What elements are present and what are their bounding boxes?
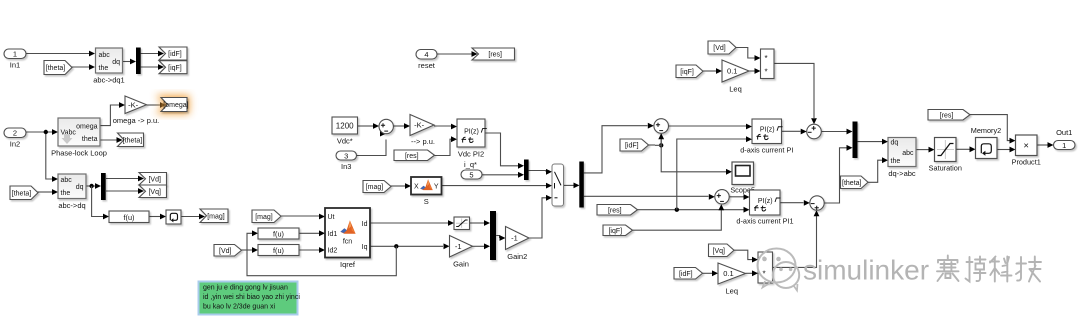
wire demux to [iqF] <box>141 66 158 68</box>
matlab logo S <box>420 179 432 190</box>
gain Leq <box>722 60 749 82</box>
svg-text:[res]: [res] <box>405 153 419 160</box>
wire switch to demux <box>563 184 573 186</box>
wire [Vq] to product2 <box>734 250 752 259</box>
svg-text:abc: abc <box>99 52 111 59</box>
wire f(u) to Memory <box>149 216 160 218</box>
wire f(u)3 to Id2 <box>299 249 319 251</box>
wire idF to sum d <box>660 134 662 146</box>
wire In2 to PLL <box>26 131 52 133</box>
pid block Vdc PI2 <box>457 119 485 147</box>
product block (Vd*wLiq) <box>761 49 775 79</box>
svg-text:dq->abc: dq->abc <box>888 169 916 178</box>
outport Out1 <box>1054 141 1076 150</box>
svg-text:[mag]: [mag] <box>366 184 384 191</box>
subsystem dq-&gt;abc <box>888 138 916 167</box>
wire [theta] to abc->dq1 the <box>72 66 90 68</box>
wire Id to saturation dyn <box>370 222 448 224</box>
wire demux to [idF] <box>141 53 158 55</box>
wire PI out to sum3 <box>782 130 801 132</box>
svg-text:d-axis current PI1: d-axis current PI1 <box>736 217 793 226</box>
matlab function Iqref <box>325 208 370 258</box>
goto [Vd] <box>139 173 167 186</box>
wire abc->dq dq out to demux <box>86 185 95 187</box>
wire [theta] to dq->abc the <box>868 160 882 182</box>
wire In2 branch down to abc->dq abc <box>46 132 53 179</box>
product block Product1 <box>1016 135 1038 156</box>
wire res up to PI reset <box>677 139 746 210</box>
goto [omega] highlighted <box>161 98 187 112</box>
wire Saturation to Memory2 <box>956 148 970 150</box>
svg-text:1200: 1200 <box>336 122 354 131</box>
svg-text:abc->dq1: abc->dq1 <box>93 76 124 85</box>
svg-text:4: 4 <box>424 50 428 59</box>
svg-text:Gain: Gain <box>453 260 469 269</box>
from [res] (PI reset) <box>597 205 638 216</box>
svg-text:[mag]: [mag] <box>255 214 273 221</box>
svg-text:[Vq]: [Vq] <box>148 189 161 196</box>
svg-text:Iqref: Iqref <box>340 260 356 269</box>
svg-text:dq: dq <box>112 59 120 66</box>
gain to p.u. <box>410 115 434 136</box>
wire PI1 out to sum4 <box>780 202 804 204</box>
wire Leq to product <box>749 70 755 72</box>
wire mux to Gain2 <box>496 236 499 239</box>
inport i_q* value 5 <box>461 170 482 179</box>
wire Iq to Gain <box>370 245 443 247</box>
svg-text:0.1: 0.1 <box>727 67 737 76</box>
svg-text:d-axis current PI: d-axis current PI <box>740 146 793 155</box>
wire [idF] to junction <box>649 144 656 146</box>
inport reset <box>416 50 437 60</box>
wire idF down to Scope5 <box>661 145 726 172</box>
from [theta] (lower) <box>10 186 38 200</box>
svg-text:simulinker: simulinker <box>803 255 929 286</box>
wire [res] to Product1 <box>970 115 1010 141</box>
junction res <box>675 208 679 212</box>
svg-text:PI(z): PI(z) <box>760 127 775 134</box>
svg-text:reset: reset <box>418 61 436 70</box>
wire dq->abc to Saturation <box>916 149 929 151</box>
sum d-axis <box>654 119 669 134</box>
svg-text:[theta]: [theta] <box>46 65 66 72</box>
svg-text:[theta]: [theta] <box>842 180 862 187</box>
svg-text:1: 1 <box>13 50 17 59</box>
svg-text:1: 1 <box>1062 141 1066 150</box>
wire demux to [Vd] <box>106 178 139 180</box>
wire sum d to PI <box>669 125 746 127</box>
wire mux4 to dq->abc <box>858 141 882 143</box>
svg-text:*: * <box>764 68 767 77</box>
svg-text:×: × <box>1023 141 1029 152</box>
svg-text:Leq: Leq <box>729 85 742 94</box>
wire Product1 to Out1 <box>1037 144 1048 146</box>
from [idF] (d-axis) <box>620 139 649 151</box>
wire sat to mux <box>470 222 485 224</box>
wire [idF] to Leq2 <box>703 272 713 274</box>
pid block d-axis current PI1 <box>750 190 781 215</box>
watermark wechat logo <box>758 249 800 291</box>
svg-text:*: * <box>764 54 767 63</box>
svg-text:Y: Y <box>434 184 439 191</box>
svg-text:[omega]: [omega] <box>163 102 188 109</box>
from [Vd] (Leq) <box>708 41 736 54</box>
svg-text:Id1: Id1 <box>328 231 338 238</box>
from [theta] (top) <box>44 61 72 75</box>
wire [mag] to S block <box>391 185 406 187</box>
saturation dynamic block <box>454 217 470 230</box>
wire demux to [Vq] <box>106 190 139 192</box>
goto [Vq] <box>139 185 167 198</box>
junction dq out <box>89 184 93 188</box>
inport In2 <box>4 128 26 138</box>
wire mux to switch in1 <box>529 171 546 172</box>
wire PLL omega to gain <box>100 105 119 126</box>
svg-text:[idF]: [idF] <box>679 271 693 278</box>
goto [res] <box>472 48 515 60</box>
goto [theta] <box>118 133 144 147</box>
wire Iq feedback to f(u)2 <box>247 233 396 275</box>
goto [mag] <box>200 209 228 223</box>
PLL arrow icon <box>62 134 73 144</box>
matlab logo Iqref <box>340 220 355 233</box>
wire reset to [res] goto <box>437 53 472 55</box>
svg-text:abc->dq: abc->dq <box>58 201 85 210</box>
svg-text:3: 3 <box>344 151 348 160</box>
wire S out to switch in2 <box>442 185 547 187</box>
svg-text:PI(z): PI(z) <box>464 129 479 136</box>
svg-text:[theta]: [theta] <box>123 137 143 144</box>
svg-text:id ,yin wei shi biao yao zhi y: id ,yin wei shi biao yao zhi yinci <box>203 294 300 301</box>
wire [Vd] to f(u)3 <box>242 249 253 251</box>
svg-text:[theta]: [theta] <box>12 190 32 197</box>
svg-text:[iqF]: [iqF] <box>168 65 182 72</box>
svg-text:2: 2 <box>13 129 17 138</box>
mux id/iq cmd <box>490 211 496 260</box>
demux for Vd/Vq <box>101 173 106 200</box>
svg-text:Ut: Ut <box>328 214 335 221</box>
svg-text:f(u): f(u) <box>124 213 135 222</box>
subsystem Phase-lock Loop <box>58 118 100 146</box>
svg-text:bu kao lv 2/3de guan xi: bu kao lv 2/3de guan xi <box>203 303 275 310</box>
matlab function S <box>411 177 442 195</box>
subsystem abc-&gt;dq <box>58 174 86 199</box>
svg-text:Saturation: Saturation <box>929 164 962 173</box>
watermark text saibokeji (drawn CJK strokes) <box>937 256 1041 282</box>
wire product down to sum3 <box>774 63 814 118</box>
demux for idF/iqF <box>136 48 141 75</box>
fcn block f(u) upper <box>258 228 299 239</box>
svg-text:[Vd]: [Vd] <box>148 176 161 183</box>
wire f(u)2 to Id1 <box>299 232 319 234</box>
wire [res] to PI1 reset <box>638 209 744 211</box>
svg-text:[iqF]: [iqF] <box>680 69 694 76</box>
wire In3 up to sum <box>356 140 386 156</box>
wire PLL theta to [theta] goto <box>100 139 117 141</box>
memory block <box>166 210 181 224</box>
svg-text:X: X <box>414 184 419 191</box>
inport In1 <box>4 49 26 59</box>
svg-text:Leq: Leq <box>725 287 738 296</box>
svg-text:-K-: -K- <box>128 100 139 109</box>
svg-text:[res]: [res] <box>488 52 502 59</box>
svg-text:[Vd]: [Vd] <box>219 248 232 255</box>
junction Iq <box>394 244 398 248</box>
svg-text:fcn: fcn <box>343 239 352 246</box>
memory block Memory2 <box>976 138 998 159</box>
svg-text:5: 5 <box>469 170 473 179</box>
constant 1200 <box>332 117 358 134</box>
svg-text:In3: In3 <box>341 162 351 171</box>
svg-text:i_q*: i_q* <box>464 160 477 169</box>
wire [iqF] to Leq <box>703 70 716 72</box>
from [res] (Product1) <box>928 110 970 121</box>
wire [Vd] to product <box>736 48 755 59</box>
svg-text:abc: abc <box>902 150 914 157</box>
mux4 dq out <box>853 122 858 159</box>
svg-text:Product1: Product1 <box>1012 158 1041 167</box>
sum q-axis <box>715 190 729 204</box>
pid block d-axis current PI <box>752 119 782 144</box>
svg-text:Gain2: Gain2 <box>507 252 527 261</box>
wire 1200 to sum <box>358 125 374 127</box>
scope Scope5 <box>732 162 754 185</box>
svg-text:the: the <box>99 65 109 72</box>
svg-text:abc: abc <box>61 177 73 184</box>
goto [iqF] <box>159 61 187 74</box>
svg-text:[Vq]: [Vq] <box>713 248 726 255</box>
annotation note (green) <box>199 282 298 315</box>
wire Memory2 to Product1 <box>997 149 1010 151</box>
wire sum4 up to mux4 <box>824 148 846 203</box>
from [mag] (S) <box>363 181 391 193</box>
wire Gain2 to switch in3 <box>529 198 546 238</box>
wire Leq2 to product2 <box>746 272 753 274</box>
wire In1 to abc->dq1 abc <box>26 53 89 55</box>
fcn block f(u) <box>109 211 149 223</box>
svg-text:Id2: Id2 <box>328 248 338 255</box>
wire i_q* to mux <box>482 174 518 176</box>
sum4 q decouple <box>810 196 824 210</box>
wire gain to [omega] <box>147 104 161 106</box>
wire [res] to Vdc PI2 reset <box>435 139 452 155</box>
svg-text:-1: -1 <box>511 234 518 243</box>
svg-text:theta: theta <box>82 136 98 143</box>
svg-text:dq: dq <box>76 184 84 191</box>
sum3 d decouple <box>807 124 822 139</box>
wire gain to Vdc PI2 <box>434 125 451 127</box>
switch block <box>552 164 564 206</box>
svg-text:Id: Id <box>362 221 368 228</box>
svg-text:0.1: 0.1 <box>723 269 733 278</box>
product block (Vq*wLid) <box>758 252 773 283</box>
subsystem abc-&gt;dq1 <box>96 48 123 73</box>
svg-text:S: S <box>424 197 429 206</box>
from [iqF] (Leq) <box>676 65 703 78</box>
from [idF] (Leq2) <box>674 268 703 280</box>
inport In3 <box>336 151 357 160</box>
svg-text:Memory2: Memory2 <box>971 126 1001 135</box>
from [Vq] (Leq2) <box>709 244 735 257</box>
wire sum3 to mux4 <box>821 131 846 133</box>
svg-text:omega: omega <box>76 124 98 131</box>
svg-text:the: the <box>61 190 71 197</box>
mux Vdc/iq* <box>524 160 529 181</box>
wire Gain to mux <box>473 245 485 247</box>
svg-text:[Vd]: [Vd] <box>713 45 726 52</box>
svg-text:f(u): f(u) <box>273 246 284 255</box>
from [res] (Vdc) <box>394 150 435 161</box>
svg-text:-1: -1 <box>455 242 462 251</box>
wire Vdc PI2 out to mux <box>485 133 518 166</box>
svg-text:[res]: [res] <box>608 207 622 214</box>
wire Memory to [mag] <box>181 216 200 218</box>
svg-text:the: the <box>891 158 901 165</box>
wire sum to gain p.u. <box>393 125 404 127</box>
svg-text:In1: In1 <box>10 61 20 70</box>
wire abc->dq1 dq to demux <box>123 61 131 63</box>
wire product2 up to sum4 <box>773 216 817 267</box>
wire [iqF] to sum q <box>633 210 722 230</box>
svg-text:[idF]: [idF] <box>168 51 182 58</box>
svg-text:f(u): f(u) <box>273 230 284 239</box>
svg-text:Out1: Out1 <box>1056 128 1072 137</box>
svg-text:gen ju e ding gong lv jisuan: gen ju e ding gong lv jisuan <box>203 284 288 291</box>
from [theta] (dq->abc) <box>841 176 869 189</box>
svg-text:In2: In2 <box>10 140 20 149</box>
gain Leq lower <box>718 263 746 284</box>
wire demux out1 to sum d <box>584 126 648 173</box>
wire demux out2 to sum q <box>584 195 709 197</box>
demux d/q ref <box>579 162 584 208</box>
fcn block f(u) lower <box>258 245 299 256</box>
svg-text:-K-: -K- <box>414 121 425 130</box>
wire [theta] to abc->dq the <box>38 191 53 193</box>
svg-text:omega -> p.u.: omega -> p.u. <box>113 116 160 125</box>
junction idF <box>659 143 663 147</box>
svg-text:[mag]: [mag] <box>207 213 225 220</box>
from [mag] (Iqref) <box>252 210 281 223</box>
from [iqF] (q-axis) <box>603 225 633 236</box>
gain omega to p.u. <box>125 96 147 114</box>
svg-text:[idF]: [idF] <box>625 143 639 150</box>
svg-text:[res]: [res] <box>940 112 954 119</box>
gain Gain <box>450 236 473 258</box>
gain Gain2 <box>506 227 530 250</box>
svg-text:dq: dq <box>891 140 899 147</box>
wire [mag] to Iqref Ut <box>281 215 319 217</box>
goto [idF] <box>159 47 187 60</box>
sum Vdc error <box>379 119 393 133</box>
svg-text:PI(z): PI(z) <box>758 198 773 205</box>
from [Vd] (Iqref) <box>214 245 242 257</box>
svg-text:[iqF]: [iqF] <box>608 228 622 235</box>
svg-text:Iq: Iq <box>362 244 368 251</box>
wire sum q to PI1 <box>729 196 743 198</box>
wire branch down to f(u) <box>92 186 103 217</box>
wire idF up part <box>655 140 661 146</box>
svg-text:Vdc PI2: Vdc PI2 <box>458 150 484 159</box>
svg-text:Phase-lock Loop: Phase-lock Loop <box>51 149 107 158</box>
junction In2 <box>44 130 48 134</box>
saturation block <box>935 138 957 162</box>
svg-text:--> p.u.: --> p.u. <box>411 137 435 146</box>
svg-text:Vdc*: Vdc* <box>337 137 353 146</box>
